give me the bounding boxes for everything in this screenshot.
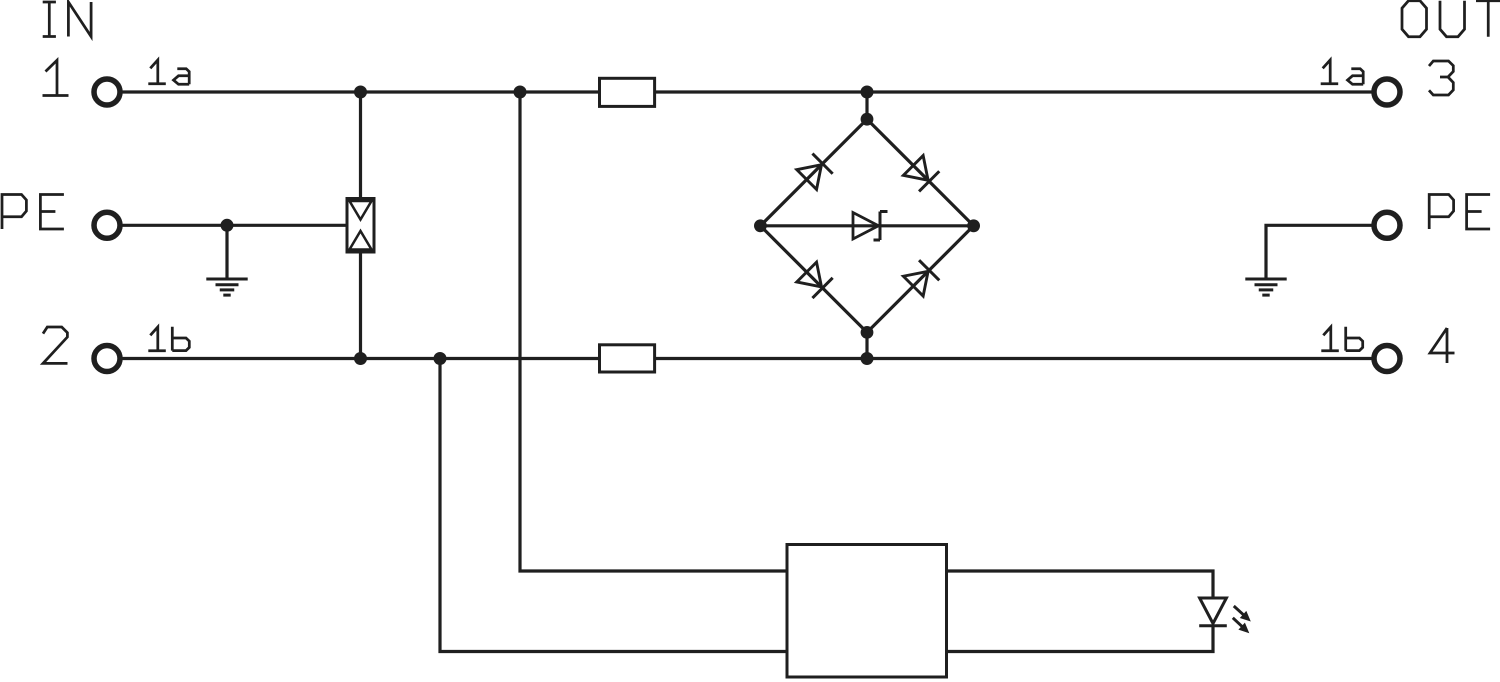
- pin label PE left: [2, 195, 64, 230]
- diode V4 (B to R): [903, 260, 939, 296]
- junction bridge left: [754, 219, 767, 232]
- wire bridge middle: [760, 224, 973, 227]
- wire bridge bottom stub: [865, 332, 868, 358]
- resistor R2: [600, 345, 655, 372]
- junction bridge bottom: [861, 326, 874, 339]
- junction 1a/arrester: [354, 86, 367, 99]
- junction 1b/arrester: [354, 352, 367, 365]
- junction 1b/supply feed: [434, 352, 447, 365]
- junction PE/ground left: [221, 219, 234, 232]
- bridge edge top-left: [760, 119, 867, 226]
- diode V3 (L to B): [797, 262, 833, 298]
- ground right: [1245, 279, 1286, 295]
- terminal 1: [94, 79, 120, 105]
- resistor R1: [600, 78, 655, 106]
- junction bridge right: [967, 219, 980, 232]
- pin label 2: [43, 327, 68, 363]
- pin label PE right: [1429, 195, 1490, 230]
- wire PE right: [1266, 225, 1374, 279]
- net label 1a left: [148, 60, 189, 84]
- wire left ground stem: [225, 225, 228, 279]
- LED light arrow 2: [1233, 618, 1250, 634]
- junction 1a/supply feed: [514, 86, 527, 99]
- net label 1a right: [1321, 60, 1364, 84]
- suppressor diode V5: [853, 212, 888, 241]
- title OUT: [1402, 1, 1500, 37]
- wire 1b from terminal 2 to resistor R2: [120, 357, 600, 360]
- wire 1a from terminal 1 to resistor R1: [120, 90, 600, 93]
- wire LED cathode to supply: [947, 626, 1214, 652]
- bridge edge bottom-right: [867, 226, 974, 333]
- wire bridge top stub: [865, 92, 868, 119]
- terminal PE right: [1374, 212, 1400, 238]
- pin label 1: [43, 60, 69, 95]
- bridge edge bottom-left: [760, 226, 867, 333]
- wire supply feed from 1a: [520, 92, 787, 571]
- wire PE left from terminal to arrester F1: [120, 224, 347, 227]
- LED V6: [1199, 598, 1227, 626]
- title IN: [43, 2, 91, 37]
- terminal 3: [1374, 79, 1400, 105]
- power supply unit U1: [787, 545, 947, 678]
- pin label 4: [1430, 328, 1455, 363]
- pin label 3: [1429, 61, 1453, 95]
- junction bridge top: [861, 113, 874, 126]
- wire 1b from resistor R2 to terminal 4: [655, 357, 1374, 360]
- wire arrester bottom: [359, 252, 362, 359]
- wire 1a from resistor R1 to terminal 3: [655, 90, 1374, 93]
- terminal 4: [1374, 346, 1400, 372]
- wire supply feed from 1b: [440, 359, 787, 652]
- junction 1a/bridge: [861, 86, 874, 99]
- wire arrester top: [359, 92, 362, 199]
- bridge edge top-right: [867, 119, 974, 226]
- net label 1b left: [148, 327, 189, 351]
- net label 1b right: [1321, 327, 1362, 351]
- junction 1b/bridge: [861, 352, 874, 365]
- terminal 2: [94, 346, 120, 372]
- ground left: [206, 279, 247, 295]
- surge arrester F1: [347, 199, 374, 253]
- diode V2 (T to R): [903, 155, 939, 191]
- diode V1 (L to T): [797, 154, 833, 190]
- terminal PE left: [94, 212, 120, 238]
- wire supply to LED anode: [947, 571, 1214, 598]
- LED light arrow 1: [1234, 606, 1251, 622]
